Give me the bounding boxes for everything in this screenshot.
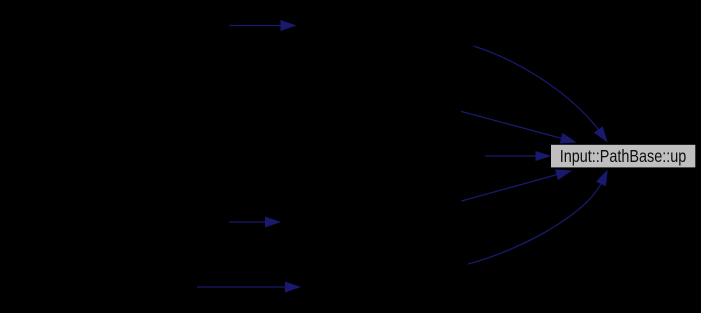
wire: edge left-column node to middle node (middle): [230, 217, 282, 228]
node Input::PathBase::up (highlighted current node): [551, 144, 696, 168]
wire: straight horizontal edge into left side of node Input::PathBase::up: [485, 151, 552, 161]
wire: long top curve edge into top of node: [473, 46, 607, 143]
wire: edge left-column node to middle node (bottom): [197, 282, 301, 293]
wire: long bottom curve edge into bottom of node: [468, 170, 608, 265]
wire: shallow line edge into top of node: [461, 111, 577, 143]
wire: edge left-column node to middle node (top): [230, 20, 297, 31]
svg-text:Input::PathBase::up: Input::PathBase::up: [560, 146, 687, 166]
wire: shallow line edge into bottom of node: [462, 169, 573, 201]
